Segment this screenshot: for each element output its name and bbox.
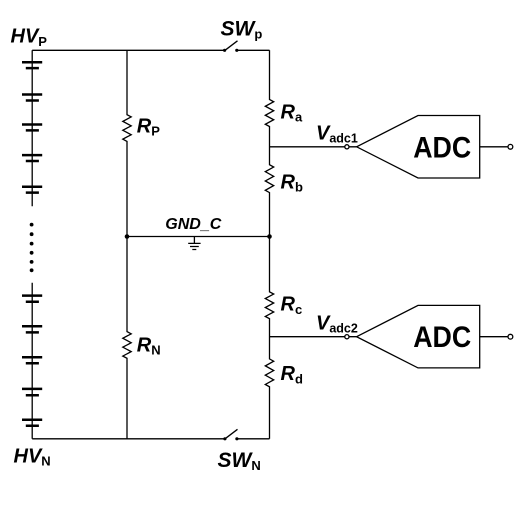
svg-text:Rb: Rb (281, 171, 303, 194)
svg-text:SWp: SWp (221, 17, 263, 41)
svg-text:HVP: HVP (11, 26, 48, 49)
svg-text:HVN: HVN (14, 445, 51, 468)
svg-text:RN: RN (137, 335, 161, 358)
svg-text:Vadc2: Vadc2 (316, 313, 358, 336)
svg-text:ADC: ADC (413, 131, 471, 164)
svg-text:Rc: Rc (281, 294, 303, 317)
svg-text:ADC: ADC (413, 321, 471, 354)
svg-text:Vadc1: Vadc1 (316, 123, 358, 146)
svg-text:GND_C: GND_C (165, 216, 221, 233)
svg-text:Ra: Ra (281, 101, 303, 124)
svg-text:Rd: Rd (281, 363, 303, 386)
svg-text:RP: RP (137, 115, 160, 138)
svg-text:SWN: SWN (218, 449, 261, 473)
